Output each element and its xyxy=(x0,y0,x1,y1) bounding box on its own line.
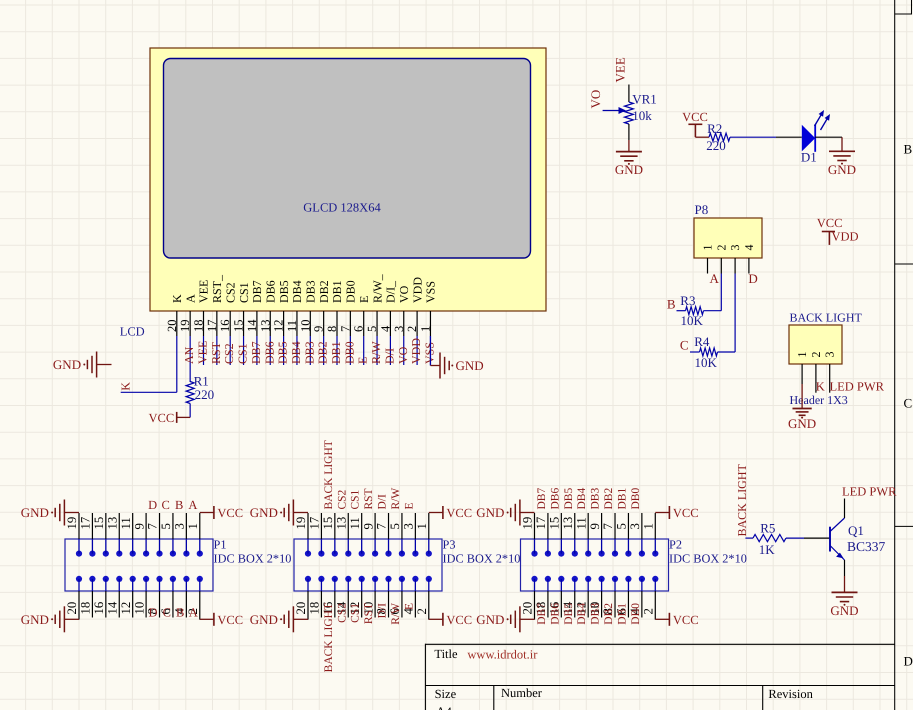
svg-text:DB0: DB0 xyxy=(344,280,358,303)
svg-text:DB6: DB6 xyxy=(549,603,561,625)
P1 pin 11 xyxy=(132,513,134,539)
svg-text:LCD: LCD xyxy=(120,325,145,339)
header pin 1 xyxy=(801,364,803,384)
LCD pin 9 (DB2) xyxy=(323,311,325,336)
resistor R1 xyxy=(186,382,194,404)
svg-text:7: 7 xyxy=(601,523,615,530)
ground GND (VR1) xyxy=(616,151,642,153)
svg-text:19: 19 xyxy=(178,320,192,333)
wire / net label CS2 xyxy=(229,336,231,365)
wire / net label D/I xyxy=(389,336,391,365)
wire / net label VEE xyxy=(203,336,205,365)
ground GND (P1 bottom) xyxy=(63,606,65,632)
P1 pin 13 xyxy=(118,513,120,539)
P3 pin 5 xyxy=(401,513,403,539)
wire / net label DB1 xyxy=(336,336,338,365)
svg-text:9: 9 xyxy=(361,523,375,529)
svg-text:1: 1 xyxy=(415,523,429,529)
wire P2 pin1 to VCC xyxy=(655,512,669,514)
P1 pin 10 xyxy=(145,591,147,618)
svg-text:Revision: Revision xyxy=(768,687,813,701)
svg-text:B: B xyxy=(667,297,676,312)
svg-text:P8: P8 xyxy=(695,202,709,217)
svg-text:20: 20 xyxy=(294,602,308,615)
LED D1 arrows xyxy=(815,113,823,126)
svg-text:E: E xyxy=(357,296,371,303)
svg-text:P3: P3 xyxy=(443,538,456,552)
LCD pin 17 (RST_) xyxy=(216,311,218,336)
svg-text:3: 3 xyxy=(628,523,642,529)
P3 pin 1 xyxy=(428,513,430,539)
P1 pin 12 xyxy=(132,591,134,618)
svg-text:2: 2 xyxy=(809,352,823,358)
wire P8 pin2 to R3 xyxy=(720,274,722,311)
svg-text:D: D xyxy=(148,498,157,512)
sheet border top tick xyxy=(895,13,912,15)
svg-text:10K: 10K xyxy=(681,313,704,328)
svg-text:3: 3 xyxy=(728,245,742,251)
P8 pin 2 xyxy=(720,258,722,274)
P2 pin 3 xyxy=(641,513,643,539)
svg-text:E: E xyxy=(403,603,415,610)
svg-text:DB7: DB7 xyxy=(536,488,548,510)
svg-text:B: B xyxy=(904,142,913,157)
svg-text:18: 18 xyxy=(79,602,93,615)
svg-text:15: 15 xyxy=(321,517,335,530)
ground GND (P3 bottom) xyxy=(292,606,294,632)
svg-text:DB0: DB0 xyxy=(630,488,642,510)
svg-text:Number: Number xyxy=(501,686,543,700)
svg-text:DB3: DB3 xyxy=(304,280,318,303)
P3 contact dots xyxy=(305,551,311,557)
P3 pin 2 xyxy=(428,591,430,618)
resistor R4 xyxy=(700,348,718,356)
svg-text:Header 1X3: Header 1X3 xyxy=(790,393,848,407)
svg-text:DB3: DB3 xyxy=(302,341,316,364)
P2 pin 12 xyxy=(587,591,589,618)
svg-text:14: 14 xyxy=(245,319,259,332)
LCD pin 16 (CS2) xyxy=(229,311,231,336)
transistor Q1 xyxy=(829,527,831,552)
Q1 base pin xyxy=(804,537,830,539)
svg-text:VEE: VEE xyxy=(196,341,210,364)
svg-text:DB0: DB0 xyxy=(630,603,642,625)
svg-text:3: 3 xyxy=(392,326,406,332)
svg-text:1: 1 xyxy=(795,352,809,358)
wire P8 pin3 to R4 xyxy=(734,274,736,353)
svg-text:DB5: DB5 xyxy=(276,341,290,364)
P8 pin 1 xyxy=(707,258,709,274)
svg-text:11: 11 xyxy=(119,517,133,529)
svg-text:BACK LIGHT: BACK LIGHT xyxy=(735,464,749,537)
svg-text:VCC: VCC xyxy=(673,506,699,520)
svg-text:4: 4 xyxy=(378,325,392,332)
P1 pin 6 xyxy=(172,591,174,618)
LCD pin 10 (DB3) xyxy=(309,311,311,336)
svg-text:B: B xyxy=(175,498,183,512)
svg-text:13: 13 xyxy=(334,517,348,530)
P2 pin 5 xyxy=(627,513,629,539)
svg-text:DB7: DB7 xyxy=(249,341,263,364)
P2 pin 17 xyxy=(547,513,549,539)
P2 pin 10 xyxy=(601,591,603,618)
svg-text:DB5: DB5 xyxy=(277,280,291,303)
svg-text:DB4: DB4 xyxy=(576,488,588,510)
wire P1 pin2 to VCC xyxy=(199,618,201,620)
ground GND (VSS) xyxy=(439,353,441,379)
ground GND (header) xyxy=(792,408,811,410)
svg-text:CS2: CS2 xyxy=(223,282,237,303)
svg-text:Size: Size xyxy=(435,687,457,701)
wire P2 pin20 to GND xyxy=(534,618,536,620)
connector P3 body xyxy=(294,539,442,591)
header body xyxy=(789,325,842,364)
svg-text:D/I_: D/I_ xyxy=(384,280,398,303)
P3 pin 19 xyxy=(307,513,309,539)
connector P1 body xyxy=(65,539,213,591)
P2 pin 2 xyxy=(654,591,656,618)
svg-text:11: 11 xyxy=(285,320,299,332)
svg-text:7: 7 xyxy=(146,523,160,530)
LCD pin 4 (D/I_) xyxy=(389,311,391,336)
svg-text:2: 2 xyxy=(415,608,429,614)
svg-text:DB3: DB3 xyxy=(590,603,602,625)
svg-text:CS2: CS2 xyxy=(222,343,236,364)
P2 pin 6 xyxy=(627,591,629,618)
wire P3 pin19 to GND xyxy=(293,512,308,514)
svg-text:GND: GND xyxy=(828,162,856,177)
svg-text:A: A xyxy=(710,271,720,286)
svg-text:D: D xyxy=(748,271,757,286)
svg-text:20: 20 xyxy=(165,320,179,333)
P2 pin 9 xyxy=(601,513,603,539)
svg-text:220: 220 xyxy=(706,138,726,153)
power port VCC (P2 top) xyxy=(668,506,670,519)
svg-text:LED PWR: LED PWR xyxy=(830,380,885,394)
power port VCC (P2 bottom) xyxy=(668,613,670,626)
LCD pin 7 (DB0) xyxy=(349,311,351,336)
resistor R2 xyxy=(709,133,730,141)
P1 pin 8 xyxy=(159,591,161,618)
LCD pin 19 (A) xyxy=(189,311,191,336)
svg-text:D: D xyxy=(148,606,157,620)
P1 pin 20 xyxy=(78,591,80,618)
svg-text:10: 10 xyxy=(298,320,312,333)
svg-text:RST_: RST_ xyxy=(210,274,224,303)
wire net K xyxy=(176,336,178,392)
P3 pin 13 xyxy=(347,513,349,539)
P2 pin 13 xyxy=(574,513,576,539)
wire P1 pin19 to GND xyxy=(64,512,79,514)
power port VCC (P1 top) xyxy=(213,506,215,519)
svg-text:IDC BOX 2*10: IDC BOX 2*10 xyxy=(443,552,521,566)
P3 pin 4 xyxy=(414,591,416,618)
ground GND (Q1) xyxy=(832,591,858,593)
LED D1 xyxy=(802,125,815,152)
svg-text:GND: GND xyxy=(21,505,49,520)
P3 pin 8 xyxy=(388,591,390,618)
svg-text:17: 17 xyxy=(79,516,93,529)
svg-text:E: E xyxy=(403,502,415,509)
svg-text:A4: A4 xyxy=(436,704,452,710)
svg-text:VO: VO xyxy=(396,346,410,364)
header pin 2 xyxy=(815,364,817,393)
LCD pin 11 (DB4) xyxy=(296,311,298,336)
svg-text:GND: GND xyxy=(250,612,278,627)
zone divider B/C xyxy=(895,263,913,265)
P1 pin 7 xyxy=(159,513,161,539)
svg-text:15: 15 xyxy=(92,517,106,530)
LCD pin 20 (K) xyxy=(176,311,178,336)
svg-text:19: 19 xyxy=(521,517,535,530)
svg-text:DB2: DB2 xyxy=(317,280,331,303)
svg-text:1K: 1K xyxy=(759,542,776,557)
wire / net label RST xyxy=(216,336,218,365)
P1 pin 14 xyxy=(118,591,120,618)
svg-text:IDC BOX 2*10: IDC BOX 2*10 xyxy=(214,552,292,566)
power port VCC (P1 bottom) xyxy=(213,613,215,626)
svg-text:3: 3 xyxy=(823,352,837,358)
P8 pin 4 xyxy=(748,258,750,274)
svg-text:2: 2 xyxy=(714,245,728,251)
svg-text:15: 15 xyxy=(548,517,562,530)
svg-text:CS1: CS1 xyxy=(236,343,250,364)
svg-text:K: K xyxy=(816,380,825,394)
svg-text:R/W_: R/W_ xyxy=(370,273,384,303)
ground GND (P2 top) xyxy=(519,500,521,526)
P1 contact dots xyxy=(76,551,82,557)
ground GND (D1) xyxy=(829,150,855,152)
svg-text:C: C xyxy=(163,606,171,620)
connector P8 body xyxy=(694,218,762,258)
svg-text:C: C xyxy=(680,338,689,353)
connector P2 body xyxy=(521,539,669,591)
wire / net label R/W xyxy=(376,336,378,365)
svg-text:IDC BOX 2*10: IDC BOX 2*10 xyxy=(669,552,747,566)
svg-text:DB0: DB0 xyxy=(342,341,356,364)
svg-text:BC337: BC337 xyxy=(847,539,886,554)
svg-text:DB1: DB1 xyxy=(329,341,343,364)
svg-text:D: D xyxy=(904,654,913,669)
svg-text:CS2: CS2 xyxy=(336,603,348,623)
svg-text:15: 15 xyxy=(232,320,246,333)
wire / net label VSS xyxy=(429,336,431,366)
svg-text:D1: D1 xyxy=(801,150,817,165)
P1 pin 18 xyxy=(91,591,93,618)
LCD pin 2 (VDD) xyxy=(416,311,418,336)
P3 pin 7 xyxy=(388,513,390,539)
svg-text:14: 14 xyxy=(105,601,119,614)
svg-text:VEE: VEE xyxy=(197,280,211,303)
LCD pin 18 (VEE) xyxy=(203,311,205,336)
svg-text:E: E xyxy=(356,357,370,364)
P2 pin 16 xyxy=(560,591,562,618)
svg-text:CS2: CS2 xyxy=(336,489,348,509)
svg-text:9: 9 xyxy=(588,523,602,529)
ground GND (P1 top) xyxy=(63,500,65,526)
svg-text:17: 17 xyxy=(308,516,322,529)
svg-text:10K: 10K xyxy=(695,355,718,370)
wire VR1 to GND xyxy=(628,124,630,140)
svg-text:GND: GND xyxy=(830,603,858,618)
wire / net label E xyxy=(363,336,365,365)
svg-text:GND: GND xyxy=(21,612,49,627)
svg-text:R3: R3 xyxy=(680,293,695,308)
wire R4 left xyxy=(690,351,700,353)
D1 cathode pin xyxy=(815,136,842,138)
svg-text:R4: R4 xyxy=(694,334,710,349)
svg-text:A: A xyxy=(188,498,197,512)
P3 pin 10 xyxy=(374,591,376,618)
svg-text:19: 19 xyxy=(294,517,308,530)
P1 pin 16 xyxy=(105,591,107,618)
svg-text:RST: RST xyxy=(363,488,375,509)
svg-text:VCC: VCC xyxy=(673,613,699,627)
LCD pin 15 (CS1) xyxy=(243,311,245,336)
svg-text:20: 20 xyxy=(521,602,535,615)
svg-text:11: 11 xyxy=(574,517,588,529)
svg-text:GND: GND xyxy=(53,357,81,372)
P1 pin 19 xyxy=(78,513,80,539)
svg-text:9: 9 xyxy=(312,326,326,332)
svg-text:13: 13 xyxy=(105,517,119,530)
wire R2 to D1 xyxy=(730,136,776,138)
LCD pin 5 (R/W_) xyxy=(376,311,378,336)
svg-text:RST: RST xyxy=(363,603,375,624)
svg-text:7: 7 xyxy=(338,326,352,332)
svg-text:3: 3 xyxy=(402,523,416,529)
P3 pin 9 xyxy=(374,513,376,539)
svg-text:VCC: VCC xyxy=(217,506,243,520)
wire P3 pin1 to VCC xyxy=(429,512,443,514)
wire / net label DB7 xyxy=(256,336,258,365)
wire header pin1 to GND xyxy=(801,384,803,408)
svg-text:VCC: VCC xyxy=(817,216,843,230)
wire VCC to R2 xyxy=(695,136,709,138)
svg-text:VCC: VCC xyxy=(446,613,472,627)
P3 pin 20 xyxy=(307,591,309,618)
svg-text:GND: GND xyxy=(456,358,484,373)
svg-text:R/W: R/W xyxy=(390,488,402,510)
P2 pin 20 xyxy=(534,591,536,618)
svg-text:5: 5 xyxy=(388,523,402,529)
wire R1 to VCC xyxy=(189,404,191,418)
svg-text:2: 2 xyxy=(405,326,419,332)
wire / net label CS1 xyxy=(243,336,245,365)
svg-text:3: 3 xyxy=(173,523,187,529)
svg-text:R/W: R/W xyxy=(369,341,383,364)
svg-text:R5: R5 xyxy=(760,521,775,536)
svg-text:CS1: CS1 xyxy=(237,282,251,303)
P1 pin 1 xyxy=(199,513,201,539)
svg-text:BACK LIGHT: BACK LIGHT xyxy=(790,311,863,325)
svg-text:DB1: DB1 xyxy=(616,603,628,625)
svg-text:CS1: CS1 xyxy=(350,603,362,623)
svg-text:8: 8 xyxy=(325,326,339,332)
wire / net label AN xyxy=(189,336,191,382)
svg-text:C: C xyxy=(904,396,913,411)
wire P3 pin2 to VCC xyxy=(428,618,430,620)
P2 pin 18 xyxy=(547,591,549,618)
svg-text:D/I: D/I xyxy=(377,494,389,510)
P1 pin 4 xyxy=(185,591,187,618)
svg-text:4: 4 xyxy=(742,245,756,251)
svg-text:VDD: VDD xyxy=(832,229,859,243)
svg-text:5: 5 xyxy=(615,523,629,529)
svg-text:DB2: DB2 xyxy=(603,603,615,625)
svg-text:A: A xyxy=(189,606,198,620)
svg-text:DB5: DB5 xyxy=(563,488,575,510)
svg-text:AN: AN xyxy=(182,346,196,364)
ground GND (left of LCD) xyxy=(96,352,98,378)
title block lines xyxy=(425,643,894,645)
P3 pin 16 xyxy=(334,591,336,618)
LCD pin 14 (DB7) xyxy=(256,311,258,336)
wire / net label DB6 xyxy=(269,336,271,365)
ground GND (P3 top) xyxy=(292,500,294,526)
svg-text:11: 11 xyxy=(348,517,362,529)
D1 anode pin xyxy=(776,136,802,138)
ground GND (P2 bottom) xyxy=(519,606,521,632)
svg-text:VDD: VDD xyxy=(409,338,423,364)
P1 pin 5 xyxy=(172,513,174,539)
svg-text:D/I: D/I xyxy=(382,348,396,364)
svg-text:VCC: VCC xyxy=(682,110,708,124)
wire / net label VO xyxy=(403,336,405,365)
svg-text:DB2: DB2 xyxy=(316,341,330,364)
P3 pin 15 xyxy=(334,513,336,539)
svg-text:R/W: R/W xyxy=(390,603,402,625)
svg-text:10k: 10k xyxy=(632,108,652,123)
sheet border vertical line xyxy=(894,0,896,710)
wire Q1 collector xyxy=(844,499,846,519)
svg-text:DB4: DB4 xyxy=(290,280,304,303)
P2 pin 19 xyxy=(534,513,536,539)
wire R5 to Q1 xyxy=(786,537,804,539)
svg-text:BACK LIGHT: BACK LIGHT xyxy=(323,603,335,672)
wire D1 to GND xyxy=(841,137,843,151)
svg-text:DB4: DB4 xyxy=(576,603,588,625)
svg-text:10: 10 xyxy=(132,602,146,615)
svg-text:DB5: DB5 xyxy=(563,603,575,625)
svg-text:DB7: DB7 xyxy=(536,603,548,625)
header pin 3 xyxy=(829,364,831,393)
P3 pin 14 xyxy=(347,591,349,618)
P3 pin 18 xyxy=(320,591,322,618)
P2 pin 15 xyxy=(560,513,562,539)
svg-text:VO: VO xyxy=(397,285,411,303)
wire to R5 xyxy=(745,537,753,539)
P3 pin 17 xyxy=(320,513,322,539)
svg-text:18: 18 xyxy=(192,320,206,333)
wire stub to GND (left) xyxy=(97,364,112,366)
svg-text:VO: VO xyxy=(588,90,603,109)
svg-text:DB6: DB6 xyxy=(263,280,277,303)
svg-text:220: 220 xyxy=(195,387,215,402)
P1 pin 9 xyxy=(145,513,147,539)
svg-text:K: K xyxy=(119,382,133,391)
potentiometer VR1 xyxy=(625,102,634,124)
svg-text:A: A xyxy=(183,294,197,303)
svg-text:1: 1 xyxy=(701,245,715,251)
svg-text:1: 1 xyxy=(186,523,200,529)
svg-text:9: 9 xyxy=(132,523,146,529)
svg-text:Title: Title xyxy=(434,647,458,661)
svg-text:RST: RST xyxy=(209,341,223,364)
P3 pin 11 xyxy=(361,513,363,539)
wire P1 pin20 to GND xyxy=(78,618,80,620)
svg-text:7: 7 xyxy=(375,523,389,530)
